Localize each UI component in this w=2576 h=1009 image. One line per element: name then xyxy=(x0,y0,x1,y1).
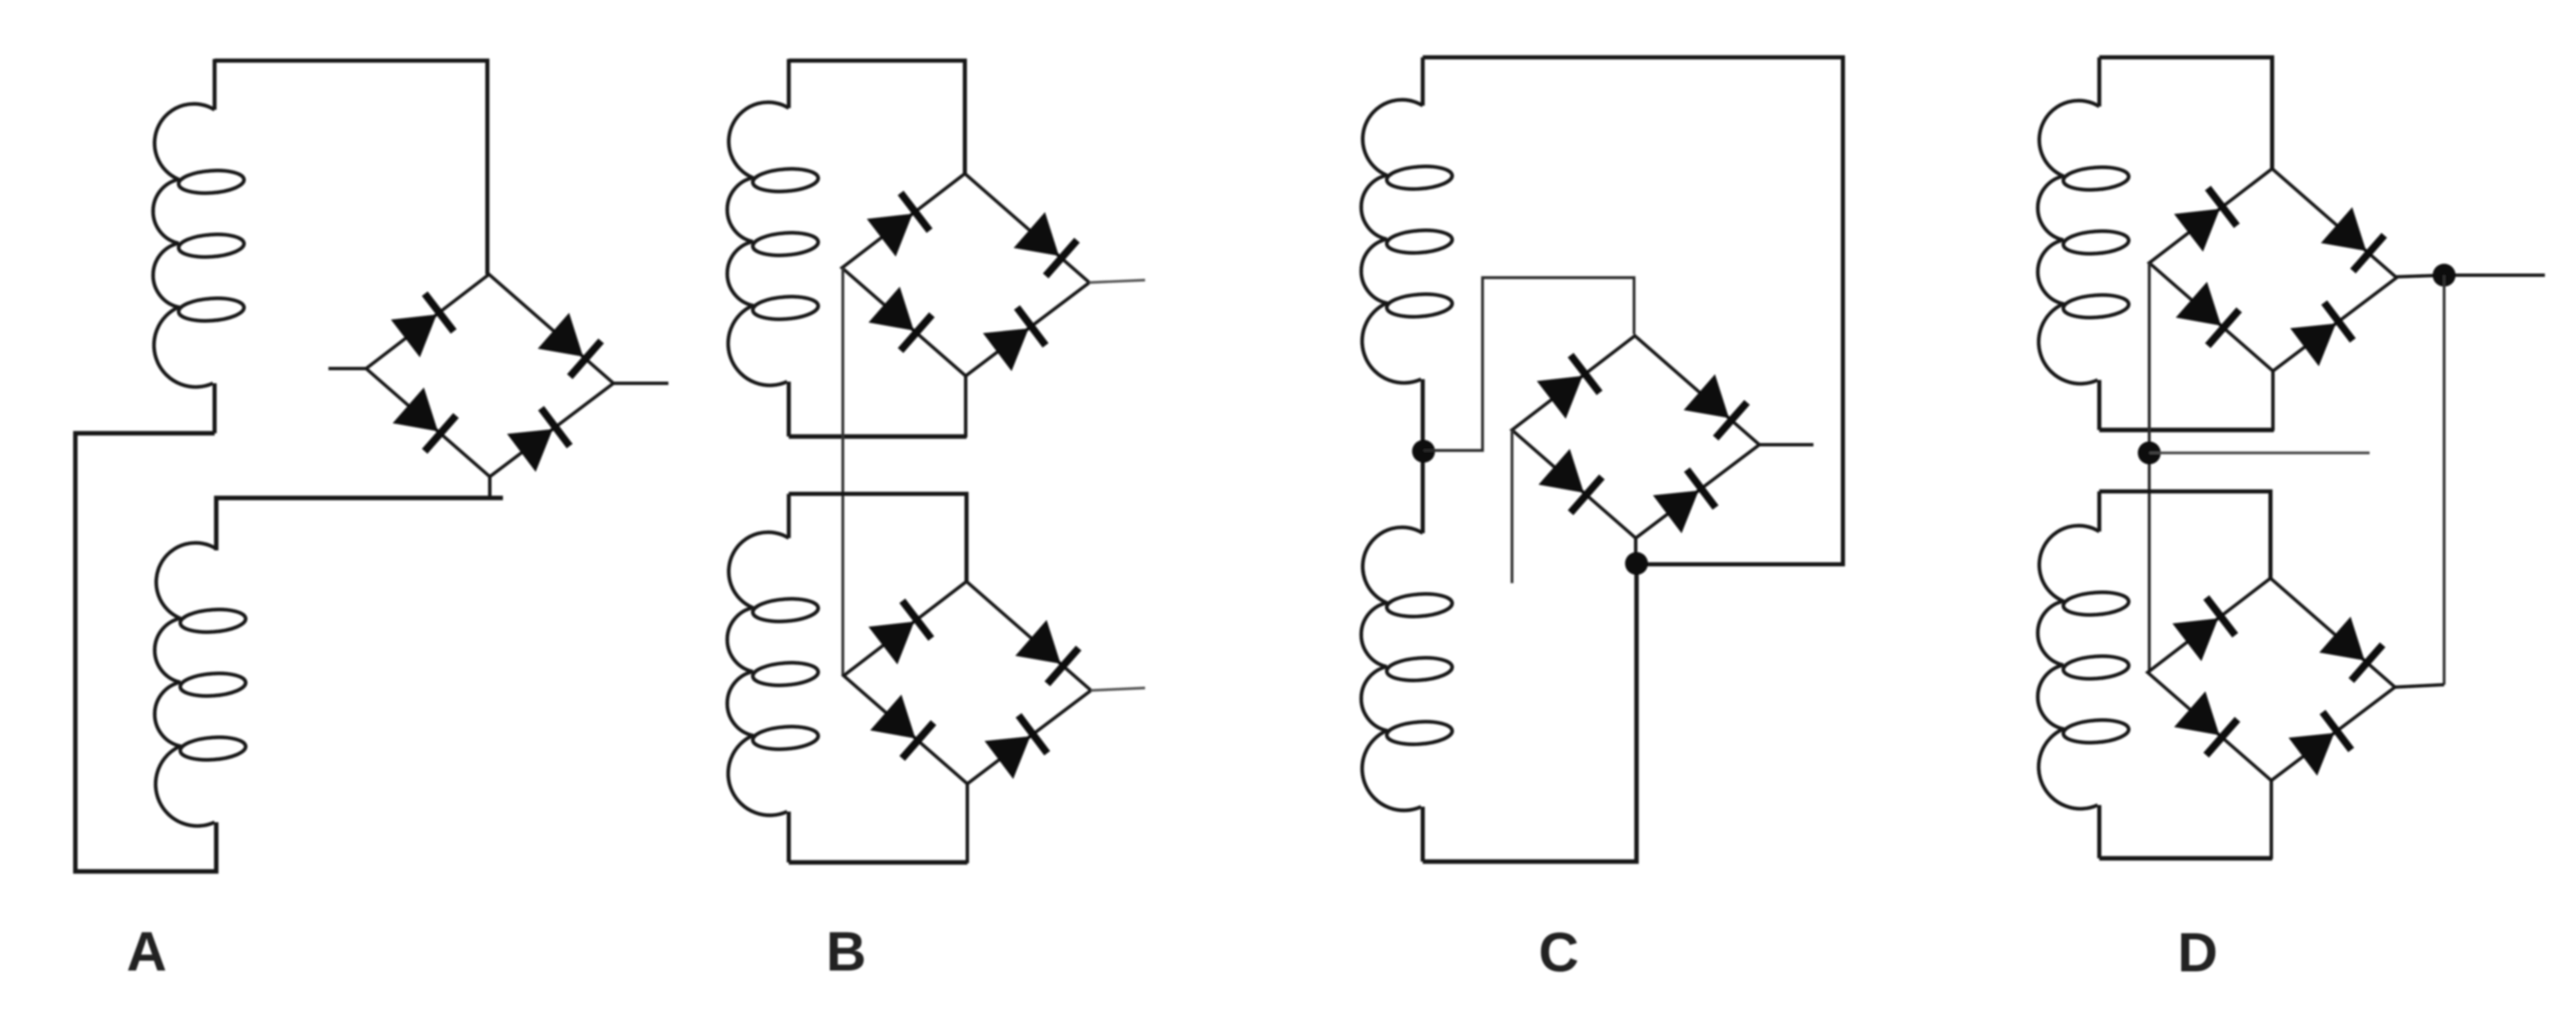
wire: circuit B, upper winding bottom stub xyxy=(787,382,791,437)
diode bridge D2: diode D1 (left corner to top corner) xyxy=(2172,598,2235,662)
diode bridge A: diamond edges xyxy=(366,274,613,477)
inductor: circuit A lower secondary winding xyxy=(155,543,247,826)
diode bridge C: diamond edges xyxy=(1512,336,1759,538)
wire: circuit D, unit 1 bottom horizontal xyxy=(2099,428,2274,432)
diode bridge C: diode D4 (bottom corner to right corner) xyxy=(1653,469,1715,533)
junction dot: circuit D plus output node xyxy=(2433,264,2456,287)
diode bridge D2: diamond edges xyxy=(2148,578,2395,781)
wire: bridge A DC plus lead xyxy=(613,382,668,385)
wire: circuit B, unit 2 bottom horizontal xyxy=(789,860,967,864)
inductor: circuit C upper half winding xyxy=(1361,100,1453,383)
wire: bridge D2 bottom stub xyxy=(2270,780,2273,859)
inductor: circuit A upper secondary winding xyxy=(153,104,245,387)
wire: bridge D1 DC plus lead to output xyxy=(2397,275,2545,277)
inductor: circuit D lower secondary winding xyxy=(2038,526,2130,809)
wire: circuit C, winding bottom to bridge C bottom node xyxy=(1423,564,1637,862)
diode bridge D1: diode D4 (bottom corner to right corner) xyxy=(2290,302,2352,366)
diode bridge A: diode D4 (bottom corner to right corner) xyxy=(507,408,569,472)
diode bridge A: diode D1 (left corner to top corner) xyxy=(391,294,454,358)
svg-text:C: C xyxy=(1538,921,1578,984)
inductor: circuit D upper secondary winding xyxy=(2038,101,2130,384)
wire: circuit B, unit 1 bottom horizontal xyxy=(789,434,967,438)
wire: bridge B2 DC plus lead xyxy=(1091,688,1145,690)
wire: circuit D, lower winding top to bridge D2 AC top xyxy=(2099,491,2270,578)
wire: circuit B, stub to lower winding xyxy=(787,494,791,538)
wire: circuit A, upper winding bottom stub xyxy=(213,383,217,433)
diode bridge D1: diode D2 (top corner to right corner) xyxy=(2321,207,2384,271)
svg-text:B: B xyxy=(826,921,866,983)
diode bridge B2: diode D4 (bottom corner to right corner) xyxy=(985,715,1047,779)
wire: link bridge D1 left corner to bridge D2 left corner xyxy=(2148,263,2151,672)
wire: circuit A, series link left loop xyxy=(75,433,216,871)
wire: circuit D, upper winding bottom stub xyxy=(2098,380,2102,430)
wire: bridge A bottom stub xyxy=(488,475,491,500)
wire: bridge B1 bottom stub xyxy=(964,375,967,437)
wire: circuit D minus output lead xyxy=(2149,451,2370,454)
wire: circuit D, lower winding bottom stub xyxy=(2098,805,2102,858)
wire: bridge D2 DC plus lead xyxy=(2395,685,2444,687)
diode bridge B1: diode D2 (top corner to right corner) xyxy=(1014,212,1077,276)
svg-text:D: D xyxy=(2177,921,2217,984)
diode bridge B2: diamond edges xyxy=(844,581,1091,784)
diode bridge D1: diamond edges xyxy=(2149,169,2397,371)
diode bridge B2: diode D3 (left corner to bottom corner) xyxy=(870,695,933,758)
wire: bridge B1 DC plus lead xyxy=(1089,280,1145,283)
inductor: circuit C lower half winding xyxy=(1361,527,1453,811)
diode bridge B2: diode D2 (top corner to right corner) xyxy=(1016,620,1079,684)
inductor: circuit B lower secondary winding xyxy=(727,532,819,816)
wire: bridge C DC plus lead xyxy=(1759,443,1813,446)
diode bridge A: diode D3 (left corner to bottom corner) xyxy=(392,387,455,451)
diode bridge C: diode D1 (left corner to top corner) xyxy=(1537,355,1600,419)
diode bridge D2: diode D4 (bottom corner to right corner) xyxy=(2289,712,2351,776)
wire: circuit C, center tap to bridge C AC top xyxy=(1424,278,1634,450)
wire: link bridge B1 left corner to bridge B2 left corner xyxy=(841,268,844,676)
wire: circuit C, lower winding bottom stub xyxy=(1421,807,1425,862)
wire: circuit B, lower winding top to bridge B2 AC top xyxy=(789,494,967,581)
wire: circuit C, center tap link xyxy=(1421,379,1425,533)
wire: bridge D1 bottom stub xyxy=(2271,370,2275,431)
wire: circuit B, lower winding bottom stub xyxy=(787,812,791,862)
diode bridge D2: diode D3 (left corner to bottom corner) xyxy=(2174,691,2237,755)
diode bridge C: diode D3 (left corner to bottom corner) xyxy=(1538,449,1601,513)
diode bridge D1: diode D1 (left corner to top corner) xyxy=(2174,188,2237,252)
inductor: circuit B upper secondary winding xyxy=(727,102,819,386)
wire: circuit D, stub to upper winding xyxy=(2098,57,2102,106)
wire: circuit C, winding top around right side to bridge C bottom node xyxy=(1423,57,1843,564)
svg-text:A: A xyxy=(126,921,166,983)
wire: circuit A, stub to upper winding xyxy=(213,59,217,110)
diode bridge A: diode D2 (top corner to right corner) xyxy=(538,313,601,377)
diode bridge D1: diode D3 (left corner to bottom corner) xyxy=(2175,282,2239,346)
wire: bridge C DC minus lead (down) xyxy=(1510,430,1513,583)
wire: circuit D, upper winding top to bridge D1 AC top xyxy=(2099,57,2272,169)
wire: circuit B, upper winding top to bridge B1 AC top xyxy=(789,61,965,174)
diode bridge B1: diamond edges xyxy=(842,174,1089,376)
diode bridge C: diode D2 (top corner to right corner) xyxy=(1684,374,1747,438)
wire: circuit D, unit 2 bottom horizontal xyxy=(2099,856,2272,860)
diode bridge B1: diode D3 (left corner to bottom corner) xyxy=(868,287,931,351)
junction dot: circuit C bridge bottom output node xyxy=(1625,552,1648,575)
diode bridge D2: diode D2 (top corner to right corner) xyxy=(2320,617,2383,681)
junction dot: circuit C center tap node xyxy=(1412,440,1435,463)
wire: bridge C bottom stub xyxy=(1634,537,1637,565)
wire: circuit D, stub to lower winding xyxy=(2098,491,2102,532)
wire: circuit A, lower winding top to bridge A AC bottom xyxy=(216,498,503,550)
wire: link D plus node down to bridge D2 DC plus xyxy=(2442,275,2445,685)
wire: circuit C, stub to upper winding xyxy=(1421,57,1425,106)
diode bridge B1: diode D4 (bottom corner to right corner) xyxy=(983,307,1045,371)
wire: bridge B2 bottom stub xyxy=(966,783,969,863)
wire: bridge A DC minus lead xyxy=(328,367,367,370)
wire: circuit A, upper winding top to bridge A AC top xyxy=(215,61,487,274)
diode bridge B2: diode D1 (left corner to top corner) xyxy=(868,601,931,665)
diode bridge B1: diode D1 (left corner to top corner) xyxy=(867,193,930,257)
junction dot: circuit D minus output node xyxy=(2138,441,2161,464)
wire: circuit B, stub to upper winding xyxy=(787,59,791,108)
